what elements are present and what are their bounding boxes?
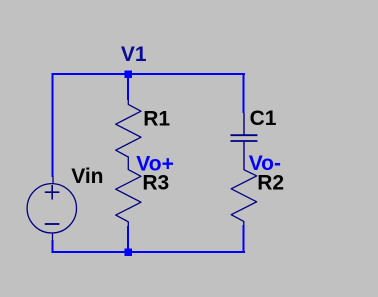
capacitor C1: bottom lead to R2 (243, 142, 245, 170)
voltage source Vin: minus sign (45, 223, 60, 225)
resistor R1 body (zigzag) + resistor R3 body below, joined at Vo+ node (116, 100, 141, 227)
wire: left vertical upper (to Vin top) (52, 73, 54, 177)
svg-text:R1: R1 (143, 108, 170, 131)
wire: top horizontal V1 net (52, 73, 245, 75)
wire: bottom horizontal rail (52, 251, 245, 253)
wire: right vertical lower (R2 pin to rail) (243, 225, 245, 253)
svg-text:R3: R3 (142, 172, 169, 195)
svg-text:R2: R2 (257, 172, 284, 195)
voltage source Vin: plus sign (45, 185, 60, 200)
svg-text:Vin: Vin (71, 165, 103, 188)
capacitor C1: bottom plate (231, 140, 258, 142)
capacitor C1: top lead (243, 113, 245, 135)
wire: right vertical upper (V1 net to C1 pin) (243, 73, 245, 113)
voltage source Vin: top lead (52, 177, 54, 185)
junction node bottom rail (square dot) (125, 249, 133, 257)
junction node V1 (square dot) (125, 71, 133, 79)
voltage source Vin: circle (27, 184, 76, 233)
wire: middle vertical upper (V1 node to R1 pin) (127, 73, 129, 100)
wire: middle vertical lower (R3 pin to rail) (127, 226, 129, 253)
svg-text:V1: V1 (121, 43, 147, 66)
svg-text:C1: C1 (250, 107, 277, 130)
capacitor C1: top plate (231, 134, 258, 136)
wire: left vertical lower (Vin bottom to ground rail) (52, 240, 54, 253)
resistor R2 body (zigzag) (231, 170, 257, 226)
voltage source Vin: bottom lead (52, 233, 54, 241)
